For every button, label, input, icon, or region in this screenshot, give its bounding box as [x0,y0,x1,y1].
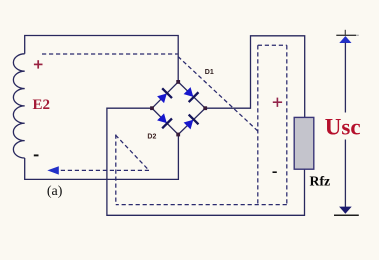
svg-text:Rfz: Rfz [310,174,331,189]
svg-text:Usc: Usc [325,114,361,139]
svg-text:D2: D2 [147,133,156,140]
svg-text:D1: D1 [205,69,214,76]
svg-text:(a): (a) [47,184,63,199]
svg-text:E2: E2 [33,97,51,113]
